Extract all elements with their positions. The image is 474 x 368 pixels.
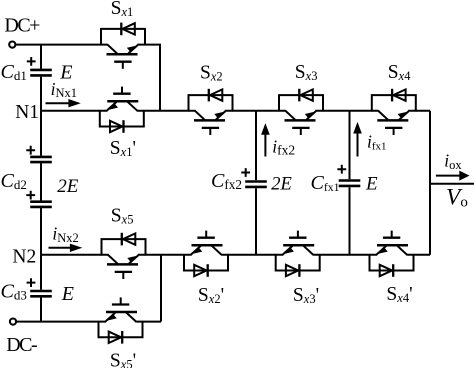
switch Sx3 (IGBT with antiparallel diode) xyxy=(279,89,324,135)
svg-text:Sx2': Sx2' xyxy=(198,285,224,306)
svg-text:Cfx2: Cfx2 xyxy=(211,170,242,192)
capacitor Cfx2 plates xyxy=(245,182,267,187)
svg-text:ifx2: ifx2 xyxy=(272,136,295,157)
switch Sx1 (IGBT with antiparallel diode) xyxy=(101,23,146,69)
svg-text:Sx2: Sx2 xyxy=(200,62,223,83)
wire output tap Vo xyxy=(430,183,474,185)
svg-text:N1: N1 xyxy=(15,102,39,123)
current arrow ifx1 xyxy=(353,122,362,157)
svg-text:Sx1: Sx1 xyxy=(111,0,134,19)
wire Cfx2 branch xyxy=(255,111,257,255)
current arrow iNx1 xyxy=(46,99,81,107)
capacitor Cd3 plates xyxy=(30,291,52,296)
svg-text:Cfx1: Cfx1 xyxy=(311,172,340,194)
svg-text:DC-: DC- xyxy=(6,334,37,356)
plus polarity Cfx2 xyxy=(241,168,250,177)
svg-text:DC+: DC+ xyxy=(4,15,40,37)
svg-text:Cd2: Cd2 xyxy=(1,170,27,192)
switch Sx2 (IGBT with antiparallel diode) xyxy=(188,89,233,135)
current arrow iox xyxy=(436,171,470,181)
wire from Sx1 down to N1 row xyxy=(145,45,160,111)
plus polarity Cd2a xyxy=(26,146,35,155)
plus polarity Cd2b xyxy=(26,191,35,200)
svg-text:Sx3: Sx3 xyxy=(295,62,318,83)
svg-text:iox: iox xyxy=(444,151,462,172)
svg-text:Sx3': Sx3' xyxy=(293,285,319,306)
DC- terminal xyxy=(10,319,16,325)
svg-text:E: E xyxy=(365,173,378,194)
wire N2 row xyxy=(41,254,430,256)
wire Cfx1 branch xyxy=(349,111,351,255)
svg-text:Sx5': Sx5' xyxy=(110,351,136,368)
switch Sx5' (IGBT with antiparallel diode) xyxy=(98,297,143,343)
svg-text:Sx4': Sx4' xyxy=(386,284,412,305)
svg-text:N2: N2 xyxy=(12,247,36,268)
svg-text:2E: 2E xyxy=(271,174,292,194)
wire DC+ rail xyxy=(16,44,101,46)
plus polarity Cd1 xyxy=(27,57,36,66)
DC+ terminal xyxy=(9,42,15,48)
wire left DC bus (gaps at Cd1 Cd2 Cd3) xyxy=(40,45,42,322)
svg-text:Sx1': Sx1' xyxy=(110,138,136,159)
wire output right vertical xyxy=(429,111,431,255)
svg-text:iNx2: iNx2 xyxy=(52,224,78,245)
plus polarity Cd3 xyxy=(27,278,36,287)
capacitor Cd2b plates xyxy=(30,202,52,207)
wire DC- rail xyxy=(16,321,161,323)
wire N1 row xyxy=(41,110,430,112)
svg-text:Sx5: Sx5 xyxy=(111,206,134,227)
svg-text:ifx1: ifx1 xyxy=(367,132,387,153)
svg-text:Cd1: Cd1 xyxy=(1,61,27,83)
svg-text:2E: 2E xyxy=(57,176,79,197)
svg-text:E: E xyxy=(61,283,74,305)
svg-text:E: E xyxy=(59,62,72,84)
wire from Sx5p up to N2 row xyxy=(160,255,162,322)
plus polarity Cfx1 xyxy=(337,165,346,174)
switch Sx5 (IGBT with antiparallel diode) xyxy=(101,233,146,279)
capacitor Cd2a plates xyxy=(30,157,52,162)
switch Sx4 (IGBT with antiparallel diode) xyxy=(371,89,416,135)
svg-text:Cd3: Cd3 xyxy=(1,281,27,303)
capacitor Cd1 plates xyxy=(30,70,52,76)
svg-text:Vo: Vo xyxy=(446,185,468,211)
current arrow iNx2 xyxy=(49,244,83,252)
capacitor Cfx1 plates xyxy=(339,181,361,186)
switch Sx3' (IGBT with antiparallel diode) xyxy=(275,231,320,277)
switch Sx4' (IGBT with antiparallel diode) xyxy=(369,231,414,277)
switch Sx2' (IGBT with antiparallel diode) xyxy=(184,231,229,277)
svg-text:Sx4: Sx4 xyxy=(388,62,411,83)
current arrow ifx2 xyxy=(261,123,270,156)
switch Sx1' (IGBT with antiparallel diode) xyxy=(99,87,144,133)
